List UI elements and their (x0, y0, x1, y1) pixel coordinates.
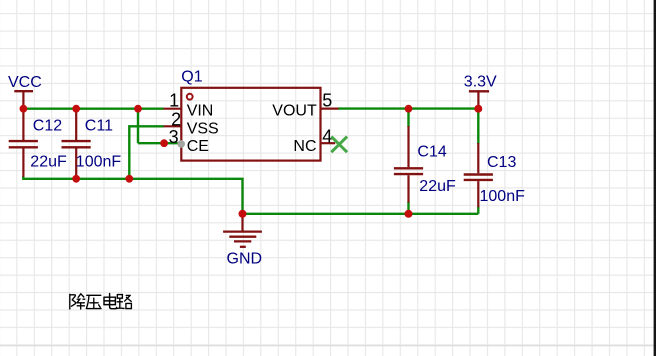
pin 1 stub (164, 108, 182, 110)
junction C11 bottom (72, 175, 80, 183)
svg-text:VCC: VCC (8, 74, 42, 91)
svg-text:1: 1 (169, 90, 179, 110)
svg-text:C13: C13 (487, 154, 516, 171)
svg-text:VIN: VIN (187, 103, 214, 120)
svg-text:3.3V: 3.3V (464, 74, 497, 91)
pin 2 stub (164, 125, 182, 127)
svg-text:5: 5 (322, 90, 332, 110)
pin 4 stub (321, 142, 335, 144)
capacitor C12 (9, 111, 38, 177)
svg-text:3: 3 (169, 127, 179, 147)
junction 3.3V / C13 top (474, 105, 482, 113)
junction VCC / C12 top (20, 105, 28, 113)
pin 5 stub (321, 107, 339, 109)
power VCC symbol (14, 91, 33, 109)
title text 降压电路 drawn as strokes (70, 294, 132, 309)
wire stubs C13 column (477, 109, 479, 214)
svg-text:NC: NC (293, 138, 316, 155)
junction CE drop on top net (134, 105, 142, 113)
svg-text:C14: C14 (417, 143, 446, 160)
svg-text:22uF: 22uF (30, 154, 67, 171)
wire top net down to CE pin 3 (138, 109, 179, 144)
junction VSS drop on bottom net (125, 175, 133, 183)
svg-text:C11: C11 (85, 118, 113, 135)
svg-text:VOUT: VOUT (272, 103, 317, 120)
capacitor C13 (464, 143, 493, 207)
wire stubs C14 column (407, 109, 409, 214)
svg-text:GND: GND (227, 251, 263, 268)
junction at pin 3 (160, 139, 168, 147)
svg-text:C12: C12 (33, 118, 62, 135)
svg-text:4: 4 (322, 127, 332, 147)
svg-text:Q1: Q1 (181, 68, 202, 85)
svg-text:22uF: 22uF (419, 178, 456, 195)
svg-text:100nF: 100nF (480, 188, 526, 205)
svg-text:CE: CE (187, 138, 209, 155)
wire GND node to output capacitors (243, 213, 479, 215)
power 3.3V symbol (469, 91, 489, 108)
no-connect X on pin 4 (331, 137, 347, 153)
junction C14 top (405, 105, 413, 113)
capacitor C14 (394, 126, 423, 203)
svg-text:100nF: 100nF (76, 154, 122, 171)
wire VOUT to 3.3V node (338, 107, 478, 109)
junction C14 bottom (405, 210, 413, 218)
pin 1 indicator circle (187, 94, 193, 100)
regulator IC U1 body (Q1) (181, 88, 320, 161)
wire VSS pin 2 to bottom net (129, 126, 163, 179)
svg-text:VSS: VSS (187, 121, 219, 138)
capacitor C11 (62, 111, 91, 177)
pin 3 gray dot decoration (177, 140, 185, 148)
wire bottom-left net to GND node (23, 176, 242, 214)
ground (223, 214, 262, 247)
wire VCC node to pin 1 VIN (23, 107, 163, 109)
junction C11 top (72, 105, 80, 113)
junction GND node (239, 210, 247, 218)
